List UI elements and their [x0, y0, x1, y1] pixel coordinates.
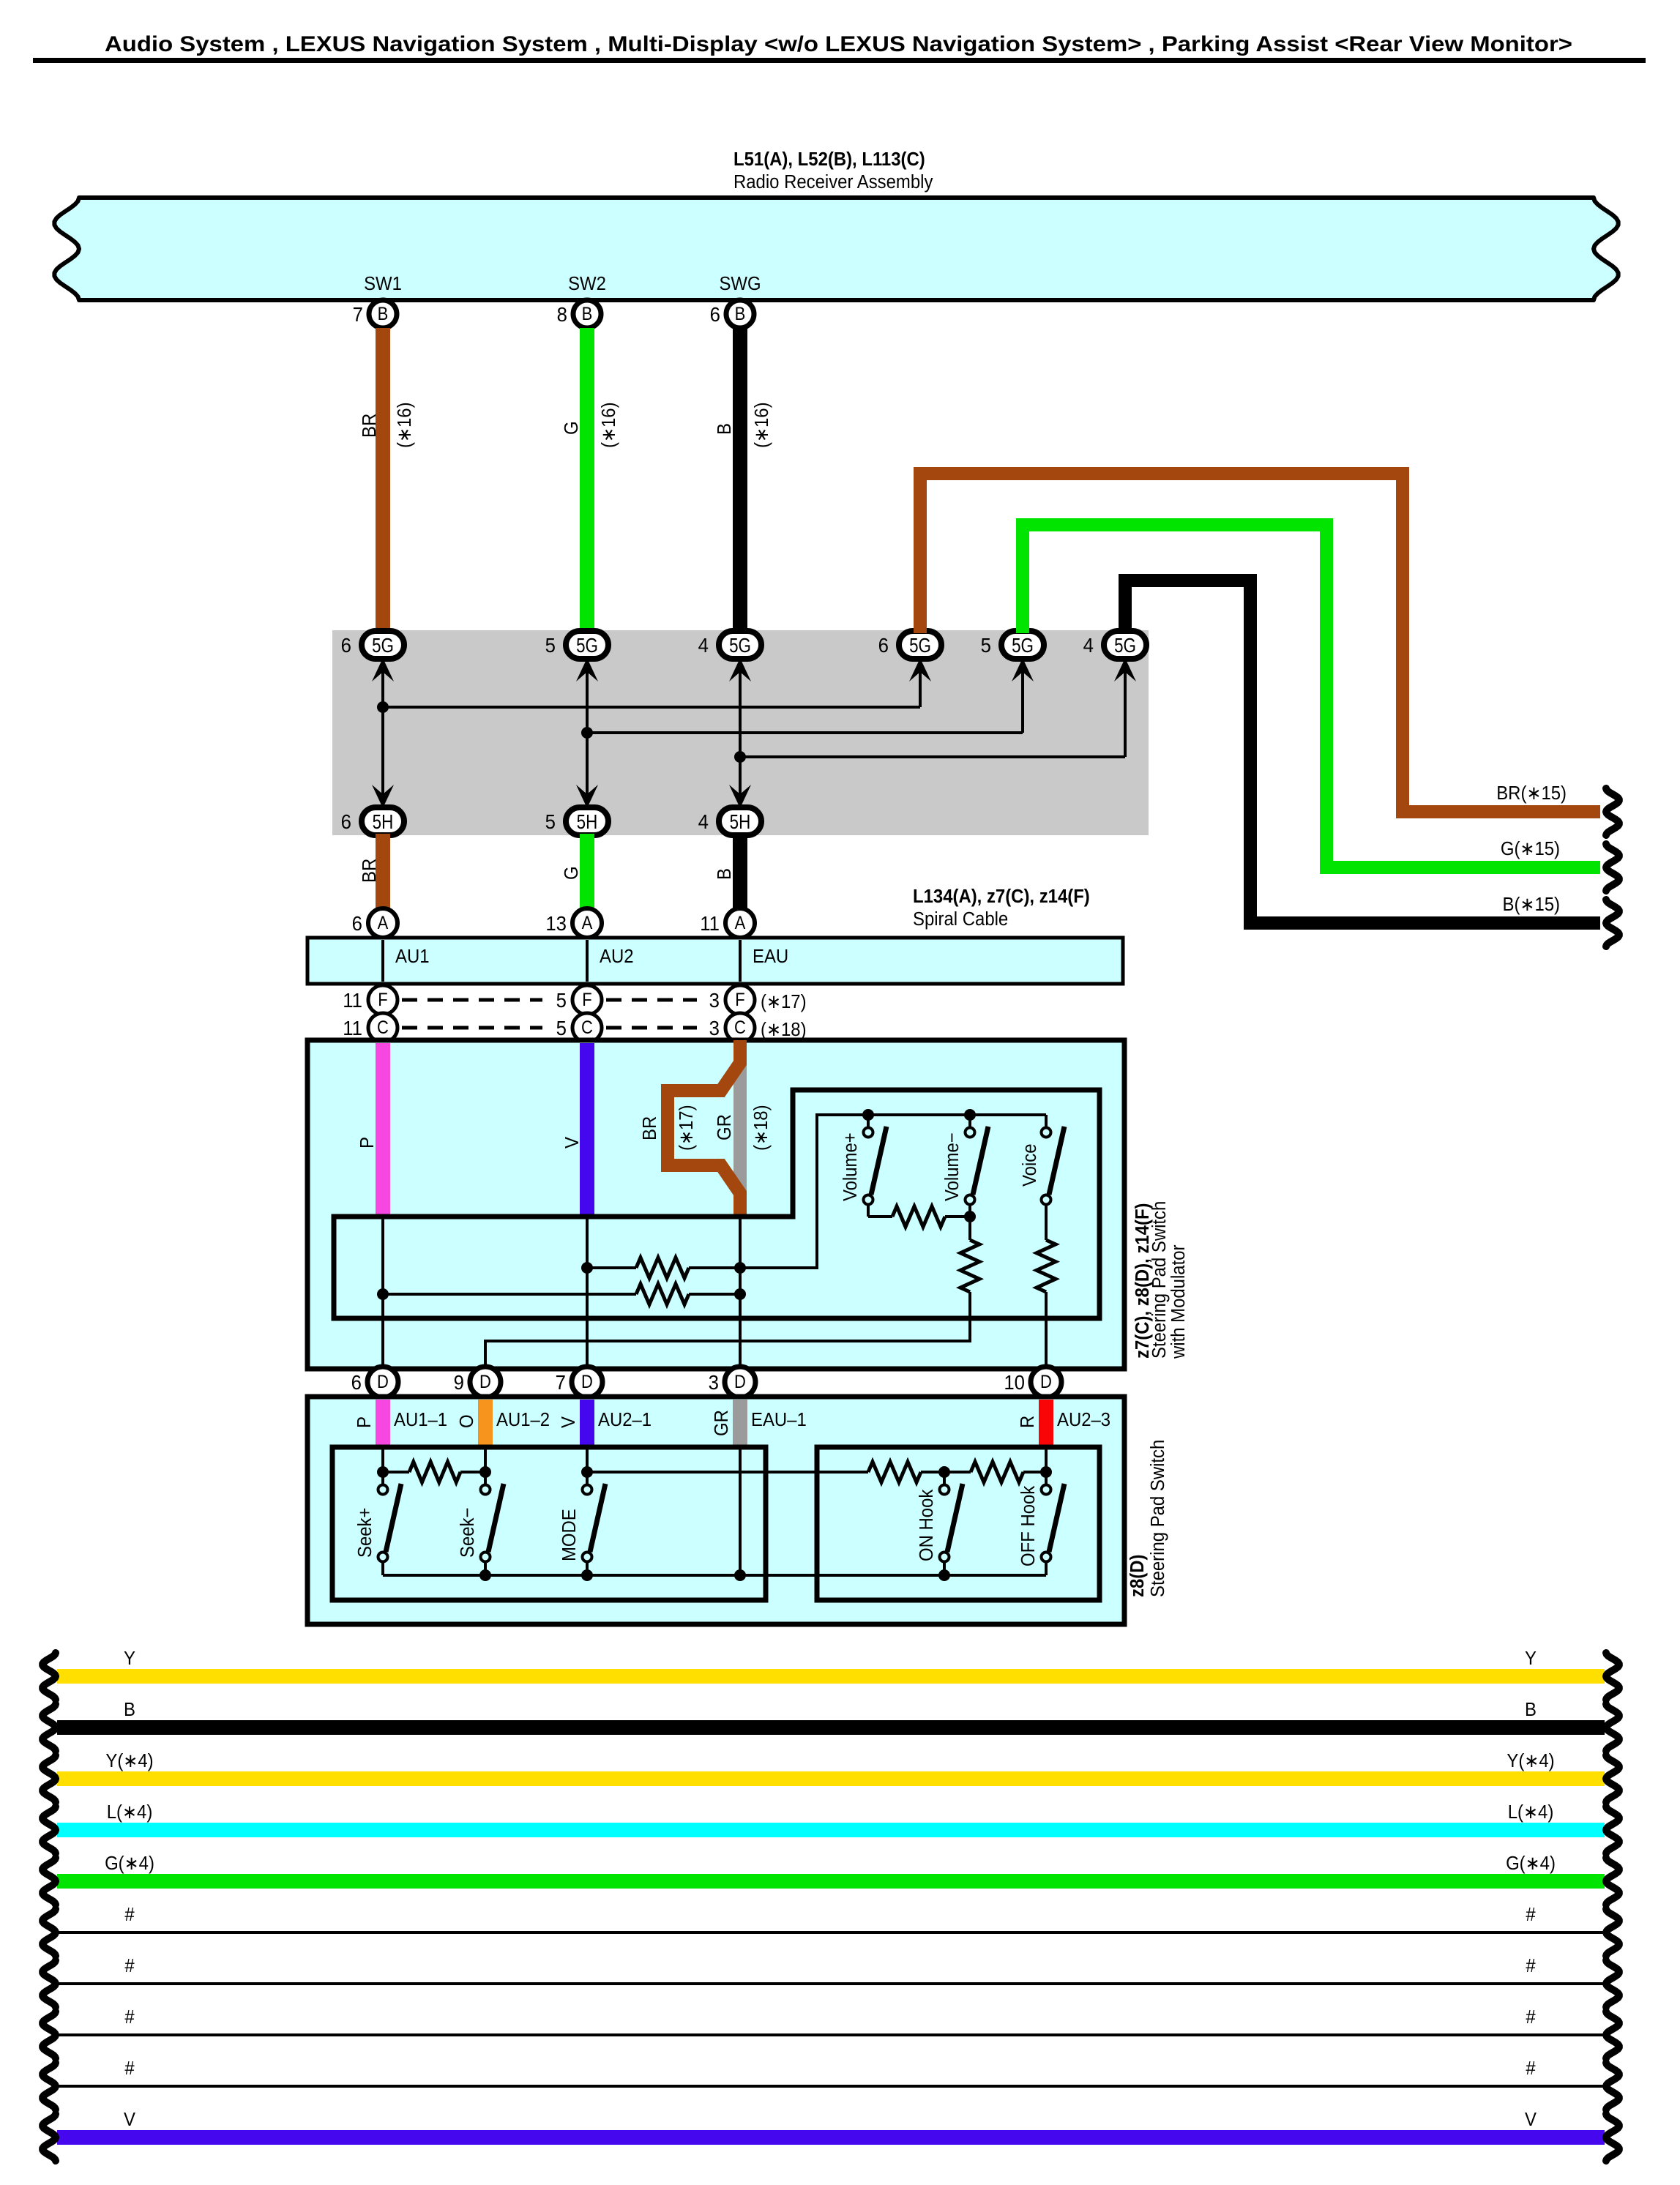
svg-text:O: O — [456, 1414, 477, 1428]
stub ON Hook bottom — [943, 1562, 946, 1575]
wire P to Seek+ — [381, 1447, 384, 1472]
svg-text:G: G — [561, 866, 582, 880]
arrow down into 5H — [729, 785, 751, 808]
wire to lower resistor — [383, 1293, 636, 1296]
svg-text:L134(A), z7(C), z14(F): L134(A), z7(C), z14(F) — [913, 886, 1090, 907]
svg-text:V: V — [124, 2109, 135, 2130]
junction MODE bus — [581, 1569, 593, 1581]
svg-text:11: 11 — [343, 1017, 362, 1039]
svg-text:EAU–1: EAU–1 — [751, 1409, 807, 1430]
switch Volume+ — [864, 1128, 873, 1138]
junction MODE top — [581, 1466, 593, 1478]
junction P / resistor line — [377, 1288, 389, 1300]
svg-text:B: B — [378, 304, 389, 324]
svg-text:F: F — [378, 990, 387, 1010]
wire SW1 link riser — [919, 669, 922, 707]
svg-text:L(∗4): L(∗4) — [1508, 1801, 1554, 1823]
spiral cable EAU line — [739, 940, 742, 982]
resistor Seek — [409, 1462, 460, 1482]
svg-text:C: C — [581, 1017, 593, 1038]
svg-text:F: F — [582, 990, 591, 1010]
stub Voice top — [1045, 1115, 1048, 1127]
wire R to OFF Hook — [1045, 1447, 1048, 1472]
wire V in z7 box — [580, 1043, 594, 1217]
torn end # right — [1606, 2063, 1619, 2110]
svg-text:3: 3 — [709, 1017, 720, 1039]
junction ON Hook top — [938, 1466, 950, 1478]
resistor Volume+ — [892, 1206, 945, 1227]
svg-text:BR: BR — [359, 859, 380, 883]
svg-text:AU2–1: AU2–1 — [598, 1409, 652, 1430]
stub ON Hook top — [943, 1472, 946, 1484]
wire SWG link horizontal — [740, 755, 1125, 758]
spiral cable AU2 line — [586, 940, 589, 982]
svg-text:#: # — [1526, 2058, 1535, 2079]
svg-text:(∗18): (∗18) — [750, 1105, 772, 1151]
bus wire # — [57, 2085, 1605, 2088]
resistor R1 (V-EAU) — [636, 1258, 689, 1278]
connector 5G pin 4 — [719, 631, 761, 659]
z8 left internal outline — [332, 1447, 766, 1600]
svg-text:D: D — [734, 1372, 746, 1392]
wire Volume+ to resistor — [868, 1215, 892, 1218]
connector 5G pin 6 — [362, 631, 404, 659]
svg-text:(∗18): (∗18) — [761, 1019, 807, 1040]
torn end B right — [1606, 1704, 1619, 1751]
connector 5G pin 5 — [1001, 631, 1044, 659]
connector B pin 8 (SW2) — [573, 300, 601, 328]
stub MODE bottom — [586, 1562, 589, 1575]
svg-text:Voice: Voice — [1019, 1144, 1040, 1187]
junction ON Hook bus — [938, 1569, 950, 1581]
svg-text:BR: BR — [359, 414, 380, 438]
svg-text:Y: Y — [1525, 1648, 1537, 1669]
torn end # left — [42, 2063, 56, 2110]
svg-text:13: 13 — [545, 912, 567, 935]
wire lower resistor to EAU — [689, 1293, 740, 1296]
stub Seek- bottom — [484, 1562, 487, 1575]
connector F pin 5 — [572, 985, 602, 1015]
svg-text:MODE: MODE — [559, 1509, 580, 1561]
svg-text:C: C — [734, 1017, 746, 1038]
svg-text:4: 4 — [698, 634, 709, 657]
wire BR bulge in z7 box — [668, 1040, 740, 1217]
bus wire # — [57, 1931, 1605, 1934]
svg-text:5G: 5G — [1012, 635, 1034, 657]
svg-text:G(∗15): G(∗15) — [1501, 838, 1560, 859]
connector 5G pin 5 — [566, 631, 608, 659]
bus wire G(∗4) — [57, 1874, 1605, 1889]
switch ON Hook — [940, 1485, 949, 1495]
junction Volume+ top — [862, 1109, 874, 1121]
wire resistor to Volume- line — [945, 1215, 970, 1218]
switch Volume- — [966, 1128, 975, 1138]
svg-text:5: 5 — [981, 634, 991, 657]
wire SW1 link horizontal — [383, 706, 920, 709]
junction Seek+ top — [377, 1466, 389, 1478]
svg-text:Audio System , LEXUS Navigatio: Audio System , LEXUS Navigation System ,… — [105, 31, 1572, 56]
stub Volume+ bottom — [867, 1205, 870, 1217]
svg-text:5H: 5H — [730, 811, 751, 834]
connector D pin 9 — [470, 1367, 501, 1397]
steering pad switch with modulator box z7/z8/z14 — [307, 1040, 1124, 1369]
bus wire Y(∗4) — [57, 1771, 1605, 1786]
junction EAU upper — [734, 1262, 746, 1274]
spiral cable box L134/z7/z14 — [307, 938, 1123, 984]
wire MODE to hook resistors — [587, 1471, 868, 1474]
wire SW2 link vertical — [586, 669, 589, 796]
svg-text:5: 5 — [556, 1017, 567, 1039]
arrow up into 5G — [372, 658, 394, 681]
svg-text:5G: 5G — [1114, 635, 1136, 657]
svg-text:V: V — [561, 1137, 583, 1148]
svg-text:G: G — [561, 421, 582, 435]
svg-text:EAU: EAU — [753, 946, 788, 967]
arrow down into 5H — [576, 785, 598, 808]
svg-text:(∗17): (∗17) — [761, 991, 807, 1012]
connector 5G pin 4 — [1104, 631, 1146, 659]
svg-text:BR(∗15): BR(∗15) — [1496, 783, 1567, 804]
svg-text:B: B — [714, 868, 735, 880]
svg-text:5G: 5G — [909, 635, 931, 657]
arrow up into 5G — [909, 658, 931, 681]
wire SW2 link riser — [1021, 669, 1024, 733]
resistor R2 (P-EAU) — [636, 1284, 689, 1304]
arrow up into 5G — [729, 658, 751, 681]
junction block 5G/5H (gray) — [332, 630, 1149, 835]
junction Volume- top — [964, 1109, 976, 1121]
junction SW1 link — [377, 701, 389, 713]
svg-text:10: 10 — [1004, 1371, 1025, 1394]
wire BR(*15) elbow — [920, 474, 1600, 812]
wire G from B8 to 5G — [580, 328, 594, 633]
wire BR from B7 to 5G — [376, 328, 390, 633]
svg-text:P: P — [356, 1137, 378, 1148]
dashed link F11 to F5 — [402, 998, 542, 1002]
resistor OFF Hook — [971, 1462, 1023, 1482]
wire resistor to ON Hook — [921, 1471, 944, 1474]
torn end # right — [1606, 1960, 1619, 2007]
svg-text:(∗16): (∗16) — [598, 402, 619, 448]
stub MODE top — [586, 1472, 589, 1484]
svg-text:z8(D): z8(D) — [1127, 1555, 1148, 1597]
steering pad switch box z8 — [307, 1397, 1124, 1624]
svg-text:G(∗4): G(∗4) — [105, 1853, 154, 1874]
connector C pin 11 — [368, 1013, 397, 1042]
svg-text:Seek+: Seek+ — [354, 1508, 376, 1558]
connector C pin 3 — [725, 1013, 755, 1042]
wire P stub AU1-1 — [376, 1400, 390, 1447]
switch Voice — [1042, 1128, 1051, 1138]
arrow down into 5H — [372, 785, 394, 808]
svg-text:Spiral Cable: Spiral Cable — [913, 908, 1008, 930]
svg-text:11: 11 — [700, 912, 720, 935]
wire B(*15) elbow — [1125, 580, 1600, 923]
svg-text:3: 3 — [709, 989, 720, 1012]
svg-text:D: D — [1040, 1372, 1052, 1392]
svg-text:D: D — [377, 1372, 389, 1392]
bus wire Y — [57, 1669, 1605, 1684]
spiral cable AU1 line — [381, 940, 384, 982]
bus wire L(∗4) — [57, 1823, 1605, 1837]
wire R stub AU2-3 — [1039, 1400, 1053, 1447]
connector A pin 11 — [725, 908, 755, 938]
wire EAU to switch bus — [740, 1115, 1046, 1268]
arrow up into 5G — [1012, 658, 1034, 681]
svg-text:C: C — [377, 1017, 389, 1038]
svg-text:V: V — [1525, 2109, 1537, 2130]
junction Volume- resistor tap — [964, 1211, 976, 1222]
bus wire B — [57, 1720, 1605, 1735]
stub Seek+ top — [381, 1472, 384, 1484]
wire resistor to Seek- — [460, 1471, 485, 1474]
svg-text:7: 7 — [556, 1371, 566, 1394]
svg-text:#: # — [124, 1955, 134, 1976]
svg-text:Radio Receiver Assembly: Radio Receiver Assembly — [733, 171, 933, 193]
wire to upper resistor — [587, 1266, 636, 1269]
bus wire # — [57, 2033, 1605, 2036]
svg-text:Y(∗4): Y(∗4) — [105, 1750, 153, 1771]
wire B 5H to spiral cable — [733, 834, 747, 909]
modulator internal outline — [334, 1090, 1100, 1318]
title rule — [33, 58, 1646, 63]
svg-text:ON Hook: ON Hook — [916, 1489, 937, 1561]
dashed link C5 to C3 — [606, 1026, 697, 1030]
connector D pin 6 — [367, 1367, 398, 1397]
connector A pin 6 — [368, 908, 397, 938]
stub Volume+ top — [867, 1115, 870, 1127]
torn end Y right — [1606, 1653, 1619, 1700]
svg-text:Steering Pad Switch: Steering Pad Switch — [1149, 1201, 1170, 1359]
wire G 5H to spiral cable — [580, 834, 594, 909]
svg-text:SW2: SW2 — [568, 273, 606, 294]
svg-text:Steering Pad Switch: Steering Pad Switch — [1147, 1440, 1168, 1597]
svg-text:P: P — [354, 1416, 375, 1428]
wire O stub AU1-2 — [478, 1400, 493, 1447]
arrow up into 5G — [576, 658, 598, 681]
dashed link C11 to C5 — [402, 1026, 542, 1030]
svg-text:Volume−: Volume− — [941, 1132, 963, 1201]
stub OFF Hook bottom — [1045, 1562, 1048, 1575]
torn end # left — [42, 2012, 56, 2058]
switch OFF Hook — [1042, 1485, 1051, 1495]
torn end # right — [1606, 2012, 1619, 2058]
wire ON Hook to resistor 2 — [944, 1471, 971, 1474]
svg-text:7: 7 — [353, 303, 363, 326]
wire BR 5H to spiral cable — [376, 834, 390, 909]
connector D pin 3 — [725, 1367, 755, 1397]
switch Seek+ — [378, 1485, 388, 1495]
dashed link F5 to F3 — [606, 998, 697, 1002]
connector B pin 7 (SW1) — [369, 300, 397, 328]
svg-text:L(∗4): L(∗4) — [107, 1801, 153, 1823]
resistor Volume- vertical — [960, 1240, 979, 1292]
wire Volume- lower — [968, 1205, 971, 1240]
connector F pin 11 — [368, 985, 397, 1015]
connector 5H pin 6 — [362, 807, 404, 835]
svg-text:#: # — [124, 2058, 134, 2079]
svg-text:SW1: SW1 — [364, 273, 402, 294]
wire O to Seek- — [484, 1447, 487, 1472]
svg-text:6: 6 — [351, 1371, 362, 1394]
wire V stub AU2-1 — [580, 1400, 594, 1447]
svg-text:AU1–1: AU1–1 — [394, 1409, 447, 1430]
wire G(*15) elbow — [1023, 525, 1600, 867]
torn end B left — [42, 1704, 56, 1751]
svg-text:#: # — [1526, 1904, 1535, 1925]
junction V / resistor line — [581, 1262, 593, 1274]
torn end L(∗4) right — [1606, 1807, 1619, 1853]
svg-text:4: 4 — [698, 810, 709, 833]
svg-text:8: 8 — [557, 303, 567, 326]
svg-text:L51(A), L52(B), L113(C): L51(A), L52(B), L113(C) — [733, 149, 925, 170]
wire P in z7 box — [376, 1043, 390, 1217]
svg-text:(∗17): (∗17) — [676, 1105, 697, 1151]
junction SWG link — [734, 751, 746, 763]
svg-text:5H: 5H — [577, 811, 598, 834]
resistor Voice vertical — [1037, 1240, 1056, 1292]
svg-text:6: 6 — [878, 634, 889, 657]
torn end G(∗4) right — [1606, 1858, 1619, 1905]
torn end V right — [1606, 2114, 1619, 2161]
svg-text:#: # — [124, 1904, 134, 1925]
torn end G(*15) — [1606, 844, 1619, 891]
wire V to MODE — [586, 1447, 589, 1472]
svg-text:5: 5 — [545, 634, 556, 657]
wire P continuation to 6(D) — [381, 1217, 384, 1367]
svg-text:R: R — [1017, 1416, 1038, 1428]
bus wire V — [57, 2130, 1605, 2145]
svg-text:Y(∗4): Y(∗4) — [1507, 1750, 1554, 1771]
svg-text:BR: BR — [639, 1116, 660, 1140]
svg-text:(∗16): (∗16) — [751, 402, 772, 448]
svg-text:AU1–2: AU1–2 — [496, 1409, 550, 1430]
junction OFF Hook top — [1040, 1466, 1052, 1478]
svg-text:5: 5 — [545, 810, 556, 833]
connector C pin 5 — [572, 1013, 602, 1042]
wire Volume- to 9(D) — [485, 1292, 970, 1367]
torn end L(∗4) left — [42, 1807, 56, 1853]
stub Volume- top — [968, 1115, 971, 1127]
torn end V left — [42, 2114, 56, 2161]
svg-text:A: A — [582, 913, 593, 933]
svg-text:6: 6 — [341, 810, 351, 833]
svg-text:5G: 5G — [729, 635, 751, 657]
svg-text:SWG: SWG — [719, 273, 761, 294]
wire SW2 link horizontal — [587, 731, 1023, 734]
wire resistor 2 to OFF Hook — [1023, 1471, 1046, 1474]
svg-text:6: 6 — [341, 634, 351, 657]
svg-text:V: V — [558, 1416, 579, 1428]
svg-text:B: B — [124, 1699, 135, 1720]
svg-text:G(∗4): G(∗4) — [1506, 1853, 1556, 1874]
wire GR in z7 box — [733, 1040, 747, 1217]
svg-text:5G: 5G — [372, 635, 394, 657]
wire SWG link vertical — [739, 669, 742, 796]
svg-text:AU1: AU1 — [395, 946, 430, 967]
stub Seek+ bottom — [381, 1562, 384, 1575]
svg-text:11: 11 — [343, 989, 362, 1012]
connector D pin 10 — [1031, 1367, 1061, 1397]
svg-text:Seek−: Seek− — [457, 1508, 478, 1558]
junction SW2 link — [581, 727, 593, 739]
svg-text:#: # — [1526, 1955, 1535, 1976]
torn end Y(∗4) right — [1606, 1755, 1619, 1802]
stub Seek- top — [484, 1472, 487, 1484]
svg-text:5: 5 — [556, 989, 567, 1012]
arrow up into 5G — [1114, 658, 1136, 681]
svg-text:4: 4 — [1083, 634, 1094, 657]
svg-text:B: B — [714, 423, 735, 435]
connector 5H pin 5 — [566, 807, 608, 835]
wire upper resistor to EAU — [689, 1266, 740, 1269]
svg-text:B: B — [1525, 1699, 1537, 1720]
connector B pin 6 (SWG) — [726, 300, 754, 328]
svg-text:6: 6 — [352, 912, 362, 935]
svg-text:B: B — [582, 304, 593, 324]
svg-text:D: D — [479, 1372, 491, 1392]
wire B from B6 to 5G — [733, 328, 747, 633]
connector F pin 3 — [725, 985, 755, 1015]
svg-text:A: A — [735, 913, 746, 933]
bottom bus wire — [383, 1574, 1046, 1577]
svg-text:#: # — [1526, 2006, 1535, 2028]
stub OFF Hook top — [1045, 1472, 1048, 1484]
torn end Y(∗4) left — [42, 1755, 56, 1802]
svg-text:B: B — [735, 304, 746, 324]
resistor ON Hook — [868, 1462, 921, 1482]
wire SWG link riser — [1124, 669, 1127, 757]
wire GR stub EAU-1 — [733, 1400, 747, 1447]
svg-text:5H: 5H — [373, 811, 394, 834]
svg-text:#: # — [124, 2006, 134, 2028]
connector 5G pin 6 — [899, 631, 941, 659]
svg-text:OFF Hook: OFF Hook — [1018, 1485, 1039, 1566]
wire EAU continuation to 3(D) — [739, 1217, 742, 1367]
wire V continuation to 7(D) — [586, 1217, 589, 1367]
svg-text:AU2–3: AU2–3 — [1057, 1409, 1110, 1430]
svg-text:GR: GR — [711, 1410, 732, 1436]
svg-text:AU2: AU2 — [600, 946, 634, 967]
svg-text:with Modulator: with Modulator — [1168, 1245, 1189, 1359]
svg-text:D: D — [581, 1372, 593, 1392]
svg-text:A: A — [378, 913, 389, 933]
connector 5H pin 4 — [719, 807, 761, 835]
svg-text:3: 3 — [709, 1371, 719, 1394]
torn end B(*15) — [1606, 900, 1619, 946]
svg-text:Volume+: Volume+ — [840, 1132, 861, 1201]
connector A pin 13 — [572, 908, 602, 938]
torn end # left — [42, 1909, 56, 1956]
junction GR bus — [734, 1569, 746, 1581]
svg-text:9: 9 — [454, 1371, 464, 1394]
svg-text:5G: 5G — [576, 635, 598, 657]
wire Voice lower — [1045, 1205, 1048, 1240]
junction EAU lower — [734, 1288, 746, 1300]
torn end # left — [42, 1960, 56, 2007]
svg-text:B(∗15): B(∗15) — [1502, 894, 1560, 915]
wire Voice to 10(D) — [1045, 1292, 1048, 1367]
svg-text:GR: GR — [714, 1114, 735, 1140]
switch MODE — [583, 1485, 592, 1495]
torn end Y left — [42, 1653, 56, 1700]
wire GR to bus — [739, 1447, 742, 1575]
switch Seek- — [481, 1485, 490, 1495]
wire SW1 link vertical — [381, 669, 384, 796]
torn end BR(*15) — [1606, 788, 1619, 835]
z8 right internal outline — [817, 1447, 1100, 1600]
radio receiver assembly box L51/L52/L113 — [54, 198, 1618, 300]
